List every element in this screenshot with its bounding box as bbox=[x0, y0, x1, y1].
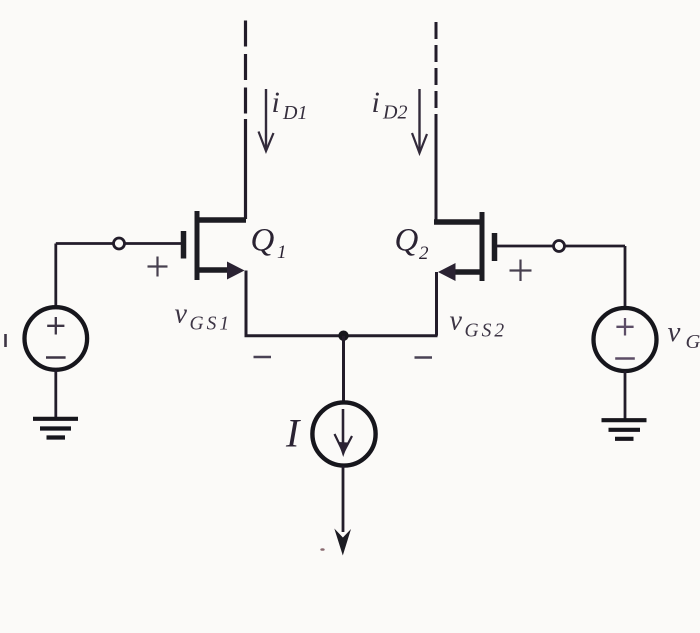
svg-text:D1: D1 bbox=[282, 102, 307, 124]
svg-text:D2: D2 bbox=[382, 102, 407, 124]
svg-text:v: v bbox=[450, 306, 463, 337]
svg-text:GS2: GS2 bbox=[465, 321, 508, 342]
gate terminal circle left bbox=[114, 238, 125, 249]
svg-text:2: 2 bbox=[419, 243, 429, 264]
wire bbox=[435, 116, 438, 221]
svg-text:1: 1 bbox=[277, 242, 287, 263]
label Q1 bbox=[251, 223, 287, 264]
label iD2 bbox=[372, 86, 408, 124]
gate terminal circle right bbox=[554, 241, 565, 252]
label cropped v1 tick bbox=[4, 334, 7, 347]
ground left bbox=[33, 419, 78, 438]
svg-text:G: G bbox=[686, 331, 700, 353]
wire bbox=[245, 334, 438, 337]
label iD1 bbox=[272, 86, 308, 124]
svg-text:Q: Q bbox=[251, 223, 275, 259]
label minus vGS2 bbox=[415, 356, 433, 359]
current source I bbox=[312, 402, 375, 465]
current arrow iD2 bbox=[412, 89, 427, 153]
wire bbox=[54, 370, 57, 418]
wire bbox=[244, 119, 247, 219]
wire bbox=[244, 21, 247, 122]
current arrow iD1 bbox=[259, 89, 274, 151]
label plus vGS2 bbox=[510, 260, 532, 282]
label plus vGS1 bbox=[148, 257, 168, 277]
svg-text:i: i bbox=[272, 86, 280, 119]
transistor Q1 bbox=[184, 211, 247, 280]
wire bbox=[497, 245, 626, 248]
wire bbox=[54, 244, 57, 308]
transistor Q2 bbox=[434, 212, 495, 281]
voltage source V2 bbox=[594, 308, 657, 371]
wire bbox=[342, 466, 345, 532]
svg-text:Q: Q bbox=[395, 223, 419, 259]
label minus vGS1 bbox=[254, 356, 272, 359]
ground right bbox=[602, 420, 647, 439]
wire bbox=[435, 272, 438, 336]
label Q2 bbox=[395, 223, 430, 265]
label vGS2 bbox=[450, 306, 508, 342]
wire bbox=[624, 246, 627, 308]
svg-text:v: v bbox=[668, 316, 681, 348]
wire bbox=[56, 242, 182, 245]
label vGS1 bbox=[175, 299, 233, 335]
svg-text:I: I bbox=[285, 411, 301, 456]
speck bbox=[320, 548, 324, 551]
wire bbox=[435, 22, 438, 118]
svg-text:GS1: GS1 bbox=[190, 314, 233, 335]
wire bbox=[624, 371, 627, 419]
node junction bbox=[338, 331, 348, 341]
arrowhead out bbox=[334, 529, 351, 556]
svg-text:i: i bbox=[372, 86, 380, 119]
voltage source V1 bbox=[25, 307, 88, 370]
label vG bbox=[668, 316, 700, 353]
wire bbox=[245, 271, 248, 336]
wire bbox=[342, 336, 345, 404]
svg-text:v: v bbox=[175, 299, 188, 330]
